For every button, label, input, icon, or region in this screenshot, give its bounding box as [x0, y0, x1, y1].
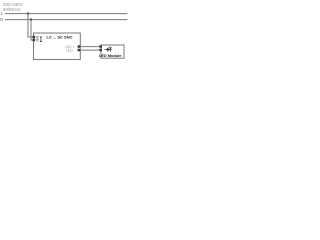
terminal output LED-	[78, 49, 81, 52]
svg-text:N: N	[0, 17, 3, 22]
terminal module +	[99, 45, 102, 48]
input terminal mark row2	[36, 38, 38, 41]
terminal output LED+	[78, 45, 81, 48]
wire LED+ to module	[80, 46, 101, 48]
wire from L line to driver input	[28, 14, 34, 37]
input symbol mark	[40, 36, 42, 38]
terminal module -	[99, 49, 102, 52]
svg-text:LC ... SC SNC: LC ... SC SNC	[46, 35, 72, 40]
terminal input L	[33, 36, 36, 39]
junction on N line	[30, 18, 32, 20]
junction on L line	[27, 12, 29, 14]
terminal input N	[33, 39, 36, 42]
svg-text:50/60 Hz: 50/60 Hz	[3, 7, 21, 12]
driver U1 box LC ... SC SNC	[34, 33, 81, 60]
LED D1 symbol	[105, 46, 112, 51]
input terminal mark row1	[36, 35, 38, 38]
svg-text:LED Module: LED Module	[99, 53, 122, 58]
LED module box	[101, 45, 124, 58]
wire from N line to driver input	[31, 20, 34, 40]
wire N mains line	[5, 19, 128, 21]
svg-text:LED -: LED -	[66, 49, 74, 53]
wire LED- to module	[80, 49, 101, 51]
wire L mains line	[5, 13, 128, 15]
